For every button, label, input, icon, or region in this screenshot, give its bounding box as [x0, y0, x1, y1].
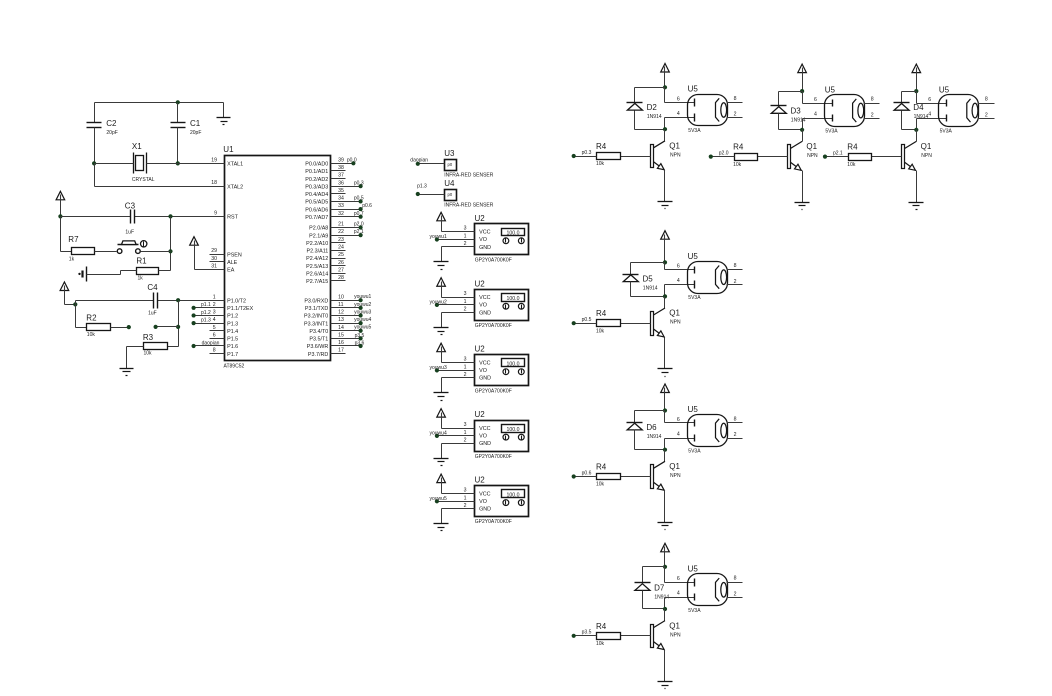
- svg-text:21: 21: [338, 222, 344, 228]
- svg-text:1: 1: [213, 294, 216, 300]
- svg-text:U1: U1: [223, 145, 234, 154]
- svg-text:P2.3/A11: P2.3/A11: [307, 249, 329, 255]
- svg-text:GND: GND: [479, 441, 491, 447]
- svg-text:8: 8: [213, 348, 216, 354]
- svg-text:D2: D2: [647, 103, 658, 112]
- svg-text:p0.5: p0.5: [582, 317, 592, 323]
- svg-text:Q1: Q1: [669, 621, 680, 630]
- svg-text:D6: D6: [646, 423, 657, 432]
- svg-text:10: 10: [338, 294, 344, 300]
- svg-text:p2.1: p2.1: [354, 229, 364, 235]
- svg-text:3: 3: [464, 357, 467, 363]
- svg-text:youwu2: youwu2: [354, 302, 371, 308]
- svg-text:P0.0/AD0: P0.0/AD0: [305, 162, 328, 168]
- svg-text:R4: R4: [596, 463, 607, 472]
- svg-text:D4: D4: [913, 103, 924, 112]
- svg-text:GND: GND: [479, 376, 491, 382]
- svg-text:2: 2: [734, 279, 737, 285]
- svg-text:NPN: NPN: [670, 632, 681, 638]
- svg-text:4: 4: [814, 112, 817, 118]
- svg-text:youwu5: youwu5: [354, 325, 371, 331]
- svg-text:3: 3: [464, 487, 467, 493]
- svg-text:p0.5: p0.5: [354, 196, 364, 202]
- svg-text:P2.4/A12: P2.4/A12: [306, 256, 328, 262]
- svg-text:youwu2: youwu2: [430, 300, 447, 306]
- svg-text:P3.1/TXD: P3.1/TXD: [305, 306, 328, 312]
- svg-text:1N914: 1N914: [643, 286, 658, 292]
- svg-text:R4: R4: [733, 143, 744, 152]
- svg-text:p2.1: p2.1: [833, 150, 843, 156]
- svg-text:p0.6: p0.6: [362, 203, 372, 209]
- svg-text:5V3A: 5V3A: [688, 295, 701, 301]
- svg-text:INFRA-RED SENSER: INFRA-RED SENSER: [444, 173, 494, 179]
- svg-text:1uF: 1uF: [148, 310, 157, 316]
- svg-text:20pF: 20pF: [190, 130, 201, 136]
- svg-text:p0.3: p0.3: [582, 150, 592, 156]
- svg-text:8: 8: [734, 96, 737, 102]
- svg-text:p0.6: p0.6: [582, 470, 592, 476]
- svg-text:P1.1/T2EX: P1.1/T2EX: [227, 306, 253, 312]
- svg-text:D3: D3: [791, 106, 802, 115]
- svg-text:P2.7/A15: P2.7/A15: [306, 279, 328, 285]
- svg-text:9: 9: [214, 210, 217, 216]
- svg-text:EA: EA: [227, 268, 235, 274]
- svg-text:33: 33: [338, 203, 344, 209]
- svg-text:p3.5: p3.5: [582, 630, 592, 636]
- svg-text:P2.0/A8: P2.0/A8: [309, 226, 328, 232]
- svg-text:P1.6: P1.6: [227, 344, 238, 350]
- svg-text:p2.0: p2.0: [354, 222, 364, 228]
- svg-text:U2: U2: [475, 279, 486, 288]
- svg-text:8: 8: [985, 96, 988, 102]
- svg-text:P3.0/RXD: P3.0/RXD: [304, 298, 328, 304]
- svg-text:U2: U2: [475, 476, 486, 485]
- svg-text:U5: U5: [688, 565, 699, 574]
- svg-text:NPN: NPN: [670, 320, 681, 326]
- svg-text:5V3A: 5V3A: [688, 608, 701, 614]
- svg-text:VCC: VCC: [479, 360, 490, 366]
- svg-text:P2.6/A14: P2.6/A14: [306, 271, 328, 277]
- svg-text:youwu1: youwu1: [354, 294, 371, 300]
- svg-text:GP2Y0A700K0F: GP2Y0A700K0F: [475, 519, 512, 525]
- svg-text:R3: R3: [143, 333, 154, 342]
- svg-text:U5: U5: [688, 85, 699, 94]
- svg-text:P0.3/AD3: P0.3/AD3: [305, 184, 328, 190]
- svg-text:U2: U2: [475, 345, 486, 354]
- svg-text:p1.3: p1.3: [417, 184, 427, 190]
- svg-text:12: 12: [338, 310, 344, 316]
- svg-text:1k: 1k: [69, 257, 75, 263]
- svg-text:p0.0: p0.0: [347, 157, 357, 163]
- svg-text:C2: C2: [106, 119, 117, 128]
- svg-text:R7: R7: [68, 235, 79, 244]
- svg-text:R4: R4: [596, 309, 607, 318]
- svg-text:Q1: Q1: [669, 309, 680, 318]
- svg-text:GP2Y0A700K0F: GP2Y0A700K0F: [475, 454, 512, 460]
- svg-text:D5: D5: [643, 275, 654, 284]
- svg-text:youwu5: youwu5: [430, 496, 447, 502]
- svg-text:3: 3: [464, 291, 467, 297]
- svg-text:VCC: VCC: [479, 426, 490, 432]
- svg-text:U3: U3: [444, 149, 455, 158]
- svg-text:P3.2/INT0: P3.2/INT0: [304, 314, 328, 320]
- svg-text:U5: U5: [688, 252, 699, 261]
- svg-text:4: 4: [677, 278, 680, 284]
- svg-text:10k: 10k: [596, 328, 605, 334]
- svg-text:2: 2: [871, 112, 874, 118]
- svg-text:3: 3: [464, 422, 467, 428]
- svg-text:27: 27: [338, 267, 344, 273]
- svg-text:p3.6: p3.6: [355, 340, 365, 346]
- svg-text:p3.5: p3.5: [355, 333, 365, 339]
- svg-text:8: 8: [734, 576, 737, 582]
- svg-text:10k: 10k: [144, 351, 153, 357]
- svg-text:10k: 10k: [596, 482, 605, 488]
- svg-text:32: 32: [338, 211, 344, 217]
- svg-text:4: 4: [677, 111, 680, 117]
- svg-text:2: 2: [985, 112, 988, 118]
- svg-text:P2.1/A9: P2.1/A9: [309, 233, 328, 239]
- svg-text:10k: 10k: [87, 332, 96, 338]
- svg-text:2: 2: [464, 503, 467, 509]
- svg-text:2: 2: [734, 112, 737, 118]
- svg-text:NPN: NPN: [807, 153, 818, 159]
- svg-text:ALE: ALE: [227, 260, 238, 266]
- svg-text:P1.4: P1.4: [227, 329, 238, 335]
- svg-text:1k: 1k: [138, 275, 144, 281]
- svg-text:100.0: 100.0: [507, 492, 520, 498]
- svg-text:P1.2: P1.2: [227, 314, 238, 320]
- svg-text:p0.7: p0.7: [354, 211, 364, 217]
- svg-text:3: 3: [213, 310, 216, 316]
- svg-text:XTAL1: XTAL1: [227, 162, 243, 168]
- svg-text:100.0: 100.0: [507, 427, 520, 433]
- svg-text:VCC: VCC: [479, 230, 490, 236]
- svg-text:VCC: VCC: [479, 491, 490, 497]
- svg-text:1: 1: [464, 430, 467, 436]
- svg-text:P2.5/A13: P2.5/A13: [306, 264, 328, 270]
- svg-text:GP2Y0A700K0F: GP2Y0A700K0F: [475, 323, 512, 329]
- svg-text:15: 15: [338, 332, 344, 338]
- svg-text:Q1: Q1: [669, 462, 680, 471]
- svg-text:P0.4/AD4: P0.4/AD4: [305, 192, 328, 198]
- svg-text:P3.7/RD: P3.7/RD: [308, 352, 328, 358]
- svg-text:VO: VO: [479, 303, 487, 309]
- svg-text:37: 37: [338, 173, 344, 179]
- svg-text:RST: RST: [227, 215, 238, 221]
- svg-text:5V3A: 5V3A: [940, 129, 953, 135]
- svg-text:4: 4: [677, 591, 680, 597]
- svg-text:P3.6/WR: P3.6/WR: [307, 344, 329, 350]
- svg-text:daopian: daopian: [410, 157, 428, 163]
- svg-text:R2: R2: [86, 314, 97, 323]
- svg-text:VO: VO: [479, 434, 487, 440]
- svg-text:39: 39: [338, 157, 344, 163]
- svg-text:6: 6: [677, 96, 680, 102]
- svg-text:INFRA-RED SENSER: INFRA-RED SENSER: [444, 203, 494, 209]
- svg-text:25: 25: [338, 252, 344, 258]
- svg-text:GND: GND: [479, 245, 491, 251]
- svg-text:100.0: 100.0: [507, 296, 520, 302]
- svg-text:U5: U5: [939, 85, 950, 94]
- svg-text:P3.5/T1: P3.5/T1: [309, 337, 328, 343]
- svg-text:100.0: 100.0: [507, 231, 520, 237]
- svg-text:P0.2/AD2: P0.2/AD2: [305, 177, 328, 183]
- svg-text:U2: U2: [475, 410, 486, 419]
- svg-text:2: 2: [464, 372, 467, 378]
- svg-text:daopian: daopian: [202, 340, 220, 346]
- svg-text:C3: C3: [125, 201, 136, 210]
- svg-text:X1: X1: [132, 142, 142, 151]
- svg-text:4: 4: [677, 431, 680, 437]
- svg-text:p0: p0: [448, 192, 453, 197]
- svg-text:6: 6: [928, 97, 931, 103]
- svg-text:VCC: VCC: [479, 295, 490, 301]
- svg-text:17: 17: [338, 348, 344, 354]
- svg-text:14: 14: [338, 325, 344, 331]
- svg-text:GP2Y0A700K0F: GP2Y0A700K0F: [475, 388, 512, 394]
- svg-text:10k: 10k: [847, 162, 856, 168]
- svg-text:R4: R4: [847, 143, 858, 152]
- svg-text:VO: VO: [479, 368, 487, 374]
- svg-text:6: 6: [677, 264, 680, 270]
- svg-text:p1.3: p1.3: [201, 317, 211, 323]
- svg-text:youwu4: youwu4: [430, 431, 447, 437]
- svg-text:1N914: 1N914: [647, 434, 662, 440]
- svg-text:19: 19: [211, 157, 217, 163]
- svg-text:P0.7/AD7: P0.7/AD7: [305, 215, 328, 221]
- svg-text:2: 2: [734, 432, 737, 438]
- svg-text:4: 4: [213, 317, 216, 323]
- svg-text:P0.5/AD5: P0.5/AD5: [305, 200, 328, 206]
- svg-text:8: 8: [871, 96, 874, 102]
- svg-text:31: 31: [211, 264, 217, 270]
- svg-text:R1: R1: [136, 257, 147, 266]
- svg-text:P2.2/A10: P2.2/A10: [306, 241, 328, 247]
- svg-text:C1: C1: [190, 119, 201, 128]
- svg-text:R4: R4: [596, 142, 607, 151]
- svg-text:C4: C4: [147, 283, 158, 292]
- svg-text:Q1: Q1: [806, 142, 817, 151]
- svg-text:PSEN: PSEN: [227, 252, 242, 258]
- svg-text:P1.5: P1.5: [227, 337, 238, 343]
- svg-text:U4: U4: [444, 179, 455, 188]
- svg-text:3: 3: [464, 226, 467, 232]
- svg-text:U5: U5: [825, 85, 836, 94]
- svg-text:P3.3/INT1: P3.3/INT1: [304, 321, 328, 327]
- svg-text:5V3A: 5V3A: [688, 128, 701, 134]
- svg-text:5V3A: 5V3A: [825, 129, 838, 135]
- svg-text:29: 29: [211, 248, 217, 254]
- svg-text:6: 6: [213, 332, 216, 338]
- svg-text:youwu1: youwu1: [430, 234, 447, 240]
- svg-text:CRYSTAL: CRYSTAL: [132, 177, 155, 183]
- svg-text:GP2Y0A700K0F: GP2Y0A700K0F: [475, 257, 512, 263]
- svg-text:p2.0: p2.0: [719, 150, 729, 156]
- svg-text:NPN: NPN: [670, 473, 681, 479]
- svg-text:D7: D7: [654, 583, 665, 592]
- svg-text:P3.4/T0: P3.4/T0: [309, 329, 328, 335]
- svg-text:P1.3: P1.3: [227, 321, 238, 327]
- svg-text:U2: U2: [475, 214, 486, 223]
- svg-text:GND: GND: [479, 507, 491, 513]
- svg-text:NPN: NPN: [921, 153, 932, 159]
- svg-text:p0: p0: [448, 162, 453, 167]
- svg-text:1N914: 1N914: [914, 114, 929, 120]
- svg-text:23: 23: [338, 237, 344, 243]
- svg-text:100.0: 100.0: [507, 361, 520, 367]
- svg-text:2: 2: [464, 241, 467, 247]
- svg-text:p1.1: p1.1: [201, 302, 211, 308]
- svg-text:1N914: 1N914: [647, 114, 662, 120]
- svg-text:8: 8: [734, 263, 737, 269]
- svg-text:youwu3: youwu3: [354, 309, 371, 315]
- svg-text:VO: VO: [479, 237, 487, 243]
- svg-text:5: 5: [213, 325, 216, 331]
- svg-text:1: 1: [464, 234, 467, 240]
- svg-text:R4: R4: [596, 622, 607, 631]
- svg-text:VO: VO: [479, 499, 487, 505]
- svg-text:10k: 10k: [596, 641, 605, 647]
- svg-text:P1.7: P1.7: [227, 352, 238, 358]
- svg-text:1: 1: [464, 299, 467, 305]
- svg-text:p1.2: p1.2: [201, 310, 211, 316]
- svg-text:2: 2: [734, 592, 737, 598]
- svg-text:24: 24: [338, 244, 344, 250]
- svg-text:p0.3: p0.3: [354, 180, 364, 186]
- svg-text:youwu3: youwu3: [430, 365, 447, 371]
- svg-text:AT89C52: AT89C52: [224, 364, 245, 370]
- svg-text:GND: GND: [479, 310, 491, 316]
- svg-text:2: 2: [464, 306, 467, 312]
- svg-text:Q1: Q1: [669, 142, 680, 151]
- svg-text:XTAL2: XTAL2: [227, 184, 243, 190]
- svg-text:22: 22: [338, 229, 344, 235]
- svg-text:1: 1: [464, 495, 467, 501]
- svg-text:13: 13: [338, 317, 344, 323]
- svg-text:30: 30: [211, 256, 217, 262]
- svg-text:6: 6: [814, 97, 817, 103]
- svg-text:10k: 10k: [596, 161, 605, 167]
- svg-text:26: 26: [338, 260, 344, 266]
- svg-text:NPN: NPN: [670, 153, 681, 159]
- svg-text:20pF: 20pF: [106, 130, 117, 136]
- svg-text:Q1: Q1: [921, 142, 932, 151]
- svg-text:5V3A: 5V3A: [688, 449, 701, 455]
- svg-text:18: 18: [211, 180, 217, 186]
- svg-text:2: 2: [464, 437, 467, 443]
- svg-text:10k: 10k: [733, 162, 742, 168]
- svg-text:8: 8: [734, 416, 737, 422]
- svg-text:P0.6/AD6: P0.6/AD6: [305, 207, 328, 213]
- svg-text:34: 34: [338, 196, 344, 202]
- svg-text:youwu4: youwu4: [354, 317, 371, 323]
- svg-text:P1.0/T2: P1.0/T2: [227, 298, 246, 304]
- svg-text:P0.1/AD1: P0.1/AD1: [305, 169, 328, 175]
- svg-text:U5: U5: [688, 405, 699, 414]
- svg-text:1uF: 1uF: [125, 230, 134, 236]
- svg-text:36: 36: [338, 180, 344, 186]
- svg-text:6: 6: [677, 576, 680, 582]
- svg-text:4: 4: [928, 112, 931, 118]
- svg-text:1: 1: [464, 365, 467, 371]
- svg-text:6: 6: [677, 417, 680, 423]
